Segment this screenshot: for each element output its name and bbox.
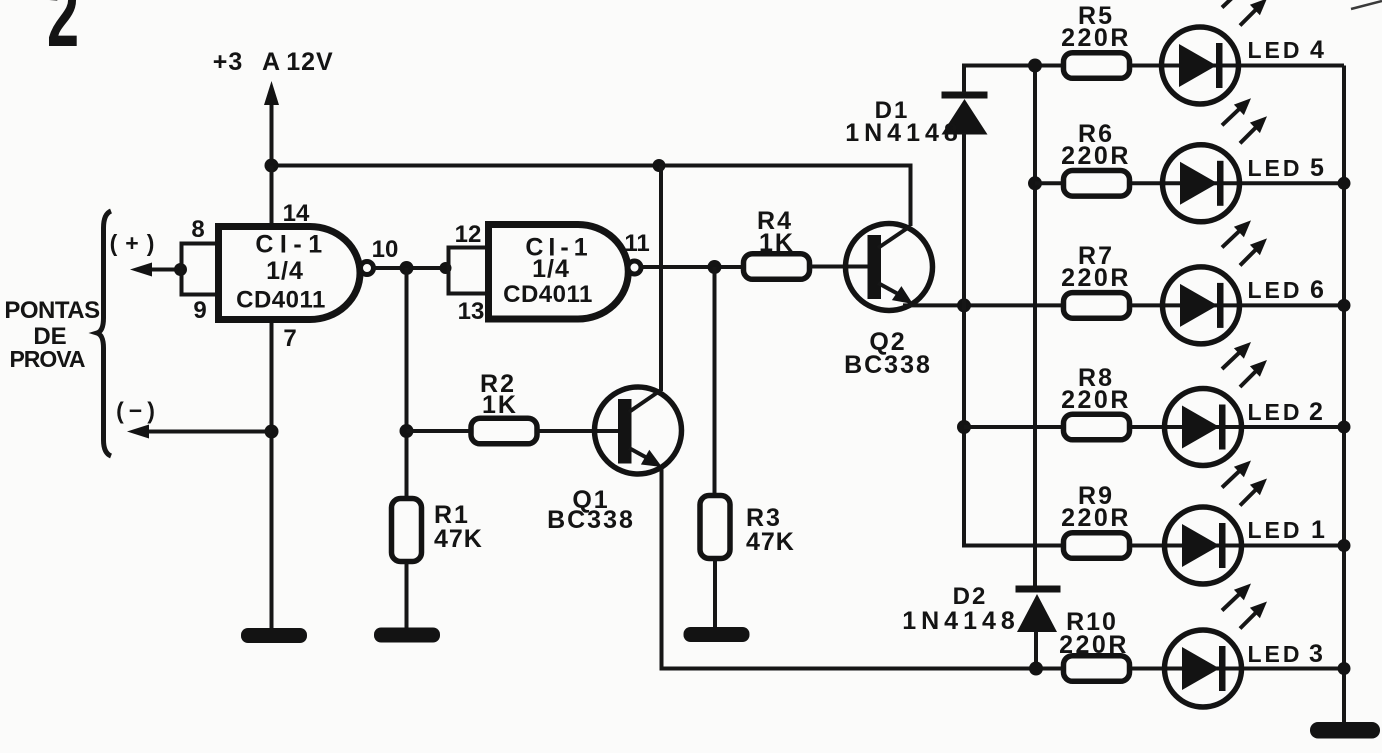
label D2 1N4148 bbox=[902, 583, 1020, 635]
wire: gate2 output to R4 bbox=[641, 265, 743, 269]
svg-text:1N4148: 1N4148 bbox=[845, 119, 963, 147]
svg-text:220R: 220R bbox=[1061, 386, 1131, 414]
label R7 220R bbox=[1061, 242, 1131, 292]
label R5 220R bbox=[1061, 2, 1131, 52]
node: rail row1 bbox=[1338, 539, 1351, 552]
svg-text:LED: LED bbox=[1248, 641, 1303, 667]
wire: LED1 row bbox=[1063, 544, 1344, 548]
node: rail row2 bbox=[1338, 421, 1351, 434]
wire: pin7 down to ground bbox=[270, 318, 274, 630]
svg-text:5: 5 bbox=[1310, 154, 1324, 182]
LED 4 bbox=[1162, 27, 1239, 104]
label R6 220R bbox=[1061, 120, 1131, 170]
node: rail row3 bbox=[1338, 662, 1351, 675]
svg-text:PROVA: PROVA bbox=[9, 346, 84, 372]
node: D1 anode junction bbox=[957, 298, 971, 312]
node: gate2 bracket junction bbox=[440, 262, 452, 274]
svg-text:220R: 220R bbox=[1059, 631, 1129, 659]
NAND gate CI-1 A (1/4 CD4011) bbox=[219, 227, 374, 320]
label R9 220R bbox=[1061, 482, 1131, 532]
node: R3 branch junction bbox=[708, 260, 722, 274]
resistor R10 bbox=[1064, 656, 1130, 682]
svg-text:4: 4 bbox=[1310, 36, 1324, 64]
svg-text:47K: 47K bbox=[434, 525, 483, 553]
svg-text:220R: 220R bbox=[1061, 142, 1131, 170]
node: supply junction bbox=[265, 159, 279, 173]
NAND gate CI-1 B (1/4 CD4011) bbox=[489, 225, 642, 320]
svg-text:LED: LED bbox=[1248, 155, 1303, 181]
resistor R1 bbox=[392, 499, 422, 562]
svg-text:13: 13 bbox=[458, 298, 485, 325]
wire: pin14 feed vertical bbox=[270, 166, 274, 230]
wire: rail drop to Q2 collector bbox=[909, 164, 913, 227]
label Q1 BC338 bbox=[547, 486, 635, 534]
wire: R3 branch vertical bbox=[713, 267, 717, 495]
wire: D1 anode vertical bbox=[962, 133, 966, 546]
svg-text:14: 14 bbox=[283, 200, 310, 227]
svg-text:1: 1 bbox=[1311, 516, 1325, 544]
resistor R6 bbox=[1064, 171, 1130, 197]
svg-text:PONTAS: PONTAS bbox=[4, 297, 100, 324]
label R3 47K bbox=[746, 504, 795, 556]
wire: D2 anode to LED3 row bbox=[1034, 631, 1038, 670]
LED 2 light arrows bbox=[1222, 342, 1267, 387]
wire: (-) probe with arrow bbox=[127, 425, 272, 439]
svg-text:D2: D2 bbox=[953, 583, 988, 610]
transistor Q1 bbox=[595, 387, 682, 474]
svg-text:220R: 220R bbox=[1061, 24, 1131, 52]
wire: Q1 emitter down and across bbox=[662, 468, 1064, 669]
wire: R2 left lead bbox=[407, 429, 472, 433]
svg-text:+3A12V: +3A12V bbox=[213, 48, 334, 76]
node: R8 row junction bbox=[957, 420, 971, 434]
svg-text:1/4: 1/4 bbox=[266, 257, 304, 285]
ground (R1) bbox=[374, 628, 440, 643]
label Q2 BC338 bbox=[844, 328, 932, 379]
node: R6 row junction bbox=[1028, 176, 1042, 190]
svg-text:(−): (−) bbox=[116, 398, 160, 424]
resistor R3 bbox=[700, 496, 730, 559]
svg-text:CD4011: CD4011 bbox=[503, 281, 593, 308]
wire: LED4 row bbox=[1063, 64, 1344, 68]
LED 6 bbox=[1163, 267, 1240, 344]
svg-text:2: 2 bbox=[1309, 398, 1323, 426]
wire: LED5 row bbox=[1063, 181, 1344, 185]
svg-text:220R: 220R bbox=[1061, 504, 1131, 532]
LED 4 light arrows bbox=[1222, 0, 1267, 26]
resistor R4 bbox=[744, 254, 810, 280]
power supply up arrow bbox=[264, 81, 279, 167]
svg-text:1K: 1K bbox=[759, 229, 795, 257]
svg-text:CI-1: CI-1 bbox=[255, 231, 328, 259]
label LED 6 bbox=[1248, 276, 1324, 304]
wire: LED3 row bbox=[1063, 667, 1344, 671]
wire: gate2 input bracket bbox=[449, 248, 489, 294]
svg-text:LED: LED bbox=[1248, 517, 1303, 543]
LED 5 bbox=[1163, 145, 1240, 222]
wire: right return rail bbox=[1342, 66, 1346, 725]
transistor Q2 bbox=[846, 224, 933, 311]
wire: R4 to Q2 base bbox=[809, 265, 868, 269]
probe brace bbox=[97, 211, 111, 456]
svg-text:6: 6 bbox=[1310, 276, 1324, 304]
wire: R9 row from corner bbox=[964, 544, 1063, 546]
ground (right rail) bbox=[1310, 722, 1380, 739]
ground (supply return) bbox=[241, 628, 307, 643]
node: LED3 row junction bbox=[1029, 662, 1043, 676]
svg-text:8: 8 bbox=[191, 216, 204, 243]
label R8 220R bbox=[1061, 364, 1131, 414]
svg-text:7: 7 bbox=[283, 325, 296, 352]
wire: gate1 input bracket bbox=[182, 244, 219, 295]
wire: distribution line x=1035 bbox=[1033, 66, 1037, 588]
svg-text:BC338: BC338 bbox=[844, 351, 932, 379]
label LED 3 bbox=[1248, 640, 1323, 668]
node: R2 branch junction bbox=[400, 424, 414, 438]
node: rail row6 bbox=[1338, 299, 1351, 312]
wire: +V rail horizontal bbox=[272, 164, 911, 168]
wire: bias vertical to R1 bbox=[405, 268, 409, 497]
resistor R7 bbox=[1064, 293, 1130, 319]
svg-text:(+): (+) bbox=[110, 230, 163, 256]
label LED 2 bbox=[1248, 398, 1323, 426]
svg-text:10: 10 bbox=[372, 236, 399, 263]
wire: Q2 emitter row to R7 bbox=[903, 303, 1063, 307]
diode D1 1N4148 bbox=[942, 92, 988, 135]
wire: R3 bottom lead bbox=[713, 559, 717, 629]
LED 1 bbox=[1165, 507, 1242, 584]
svg-text:1/4: 1/4 bbox=[532, 255, 570, 283]
ground (R3) bbox=[684, 627, 750, 642]
svg-text:220R: 220R bbox=[1061, 264, 1131, 292]
LED 2 bbox=[1165, 389, 1242, 466]
node: bias branch junction bbox=[400, 261, 414, 275]
node: top distribution junction bbox=[1028, 59, 1042, 73]
wire: gate1 output to gate2 input bbox=[373, 266, 449, 270]
resistor R9 bbox=[1064, 533, 1130, 559]
svg-text:1N4148: 1N4148 bbox=[902, 607, 1020, 635]
svg-text:CD4011: CD4011 bbox=[236, 287, 326, 314]
label LED 4 bbox=[1248, 36, 1325, 64]
svg-text:BC338: BC338 bbox=[547, 506, 635, 534]
label LED 1 bbox=[1248, 516, 1326, 544]
svg-text:2: 2 bbox=[47, 0, 79, 66]
label PONTAS DE PROVA bbox=[4, 297, 100, 372]
LED 3 light arrows bbox=[1222, 584, 1267, 629]
wire: (+) probe with arrow bbox=[130, 263, 182, 277]
resistor R2 bbox=[471, 418, 537, 444]
LED 1 light arrows bbox=[1222, 461, 1267, 506]
label R10 220R bbox=[1059, 608, 1129, 659]
wire: D1 cathode riser and jog bbox=[964, 66, 1063, 94]
svg-text:LED: LED bbox=[1248, 277, 1303, 303]
label R4 1K bbox=[757, 207, 795, 257]
label R1 47K bbox=[434, 501, 483, 553]
svg-text:3: 3 bbox=[1309, 640, 1323, 668]
svg-text:1K: 1K bbox=[482, 391, 518, 419]
wire: Q1 collector vertical bbox=[659, 166, 663, 392]
label LED 5 bbox=[1248, 154, 1325, 182]
node: rail row5 bbox=[1338, 177, 1351, 190]
svg-text:11: 11 bbox=[624, 230, 649, 257]
svg-text:47K: 47K bbox=[746, 528, 795, 556]
svg-text:LED: LED bbox=[1248, 399, 1303, 425]
LED 3 bbox=[1165, 630, 1242, 707]
node: (+) bracket junction bbox=[174, 263, 187, 276]
resistor R5 bbox=[1064, 53, 1130, 79]
svg-text:LED: LED bbox=[1248, 37, 1303, 63]
wire: R8 row bbox=[964, 425, 1063, 429]
label D1 1N4148 bbox=[845, 97, 963, 147]
LED 6 light arrows bbox=[1222, 220, 1267, 265]
wire: R6 row bbox=[1035, 181, 1063, 185]
svg-text:12: 12 bbox=[455, 221, 482, 248]
label R2 1K bbox=[480, 370, 518, 419]
wire: R2 right lead to Q1 base bbox=[537, 429, 619, 433]
wire: R1 bottom lead bbox=[405, 563, 409, 630]
node: negative probe junction bbox=[265, 425, 279, 439]
wire: LED6 row bbox=[1063, 303, 1344, 307]
resistor R8 bbox=[1064, 414, 1130, 440]
LED 5 light arrows bbox=[1222, 98, 1267, 143]
wire: LED2 row bbox=[1063, 425, 1344, 429]
diode D2 1N4148 bbox=[1016, 586, 1061, 633]
node: Q1 collector rail junction bbox=[653, 159, 666, 172]
svg-text:9: 9 bbox=[193, 297, 206, 324]
